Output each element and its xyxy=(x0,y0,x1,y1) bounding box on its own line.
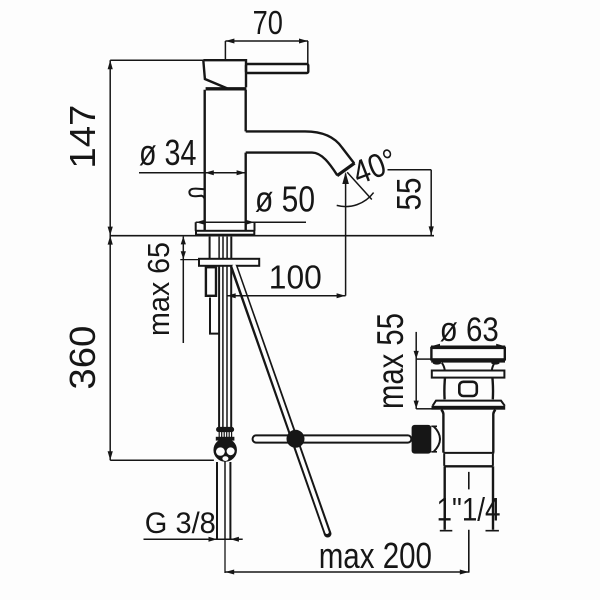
dim G3/8 xyxy=(144,538,243,540)
dim 55 xyxy=(388,170,432,236)
supply hose lines xyxy=(219,266,231,428)
knob socket xyxy=(434,426,441,452)
handle lever xyxy=(246,64,308,73)
dim ø63 xyxy=(431,345,505,347)
svg-text:max 55: max 55 xyxy=(370,313,411,409)
base flange ø50 (top edge doubles as dim line) xyxy=(196,222,255,231)
tailpiece xyxy=(445,466,493,530)
dim ø34 xyxy=(139,172,246,174)
drain body upper xyxy=(444,378,493,400)
angle arc xyxy=(337,193,374,207)
outlet vertical + 100 right extension xyxy=(345,174,347,296)
shank below deck xyxy=(210,237,232,259)
svg-text:70: 70 xyxy=(253,4,283,41)
drain centerline xyxy=(468,472,470,573)
ball joint xyxy=(287,430,305,448)
lower flange (chamfered) xyxy=(433,401,505,406)
svg-text:1"1/4: 1"1/4 xyxy=(437,491,501,527)
spout xyxy=(246,131,355,175)
dim max200 xyxy=(225,571,469,573)
dim 70 xyxy=(225,40,308,42)
svg-text:ø 50: ø 50 xyxy=(255,179,315,220)
horizontal actuating rod xyxy=(253,435,412,442)
svg-text:100: 100 xyxy=(269,259,322,296)
svg-text:G 3/8: G 3/8 xyxy=(145,507,216,540)
G3/8 nut (knurled band) xyxy=(217,428,233,432)
locknut washer xyxy=(199,259,259,266)
pop-up rod (straight, through ball joint) xyxy=(234,266,328,533)
lower hose below ball xyxy=(217,462,230,539)
threaded block A xyxy=(206,267,216,296)
square hole xyxy=(459,382,477,396)
cap seal xyxy=(431,359,505,362)
svg-text:ø 34: ø 34 xyxy=(139,132,196,173)
handle cap xyxy=(203,60,246,88)
svg-text:max 200: max 200 xyxy=(319,535,432,576)
supply nut ball xyxy=(214,439,236,461)
svg-text:max 65: max 65 xyxy=(141,242,176,336)
washer extension line xyxy=(180,259,199,261)
dim max55 xyxy=(415,332,417,409)
dim ø50 xyxy=(196,221,306,223)
drain body lower xyxy=(441,410,495,453)
rod knob xyxy=(412,425,432,454)
angle leader 40 xyxy=(347,172,372,199)
deck line xyxy=(110,235,434,237)
mid flange xyxy=(432,371,505,378)
svg-text:360: 360 xyxy=(62,326,103,390)
drain plug cap xyxy=(431,348,504,360)
block B xyxy=(210,298,219,334)
flange plate xyxy=(196,231,254,235)
svg-text:147: 147 xyxy=(62,105,103,169)
dim max65 xyxy=(182,237,184,343)
dim 100 xyxy=(227,295,346,297)
svg-text:ø 63: ø 63 xyxy=(440,311,499,349)
neck under cap xyxy=(442,363,495,371)
pipe end marks xyxy=(440,530,499,532)
dim 147 / 360 xyxy=(109,60,111,460)
collar xyxy=(444,454,493,466)
pop-up knob on body xyxy=(189,189,204,200)
extension to max200 left xyxy=(224,539,226,573)
faucet body xyxy=(205,90,246,231)
svg-text:55: 55 xyxy=(391,178,429,211)
